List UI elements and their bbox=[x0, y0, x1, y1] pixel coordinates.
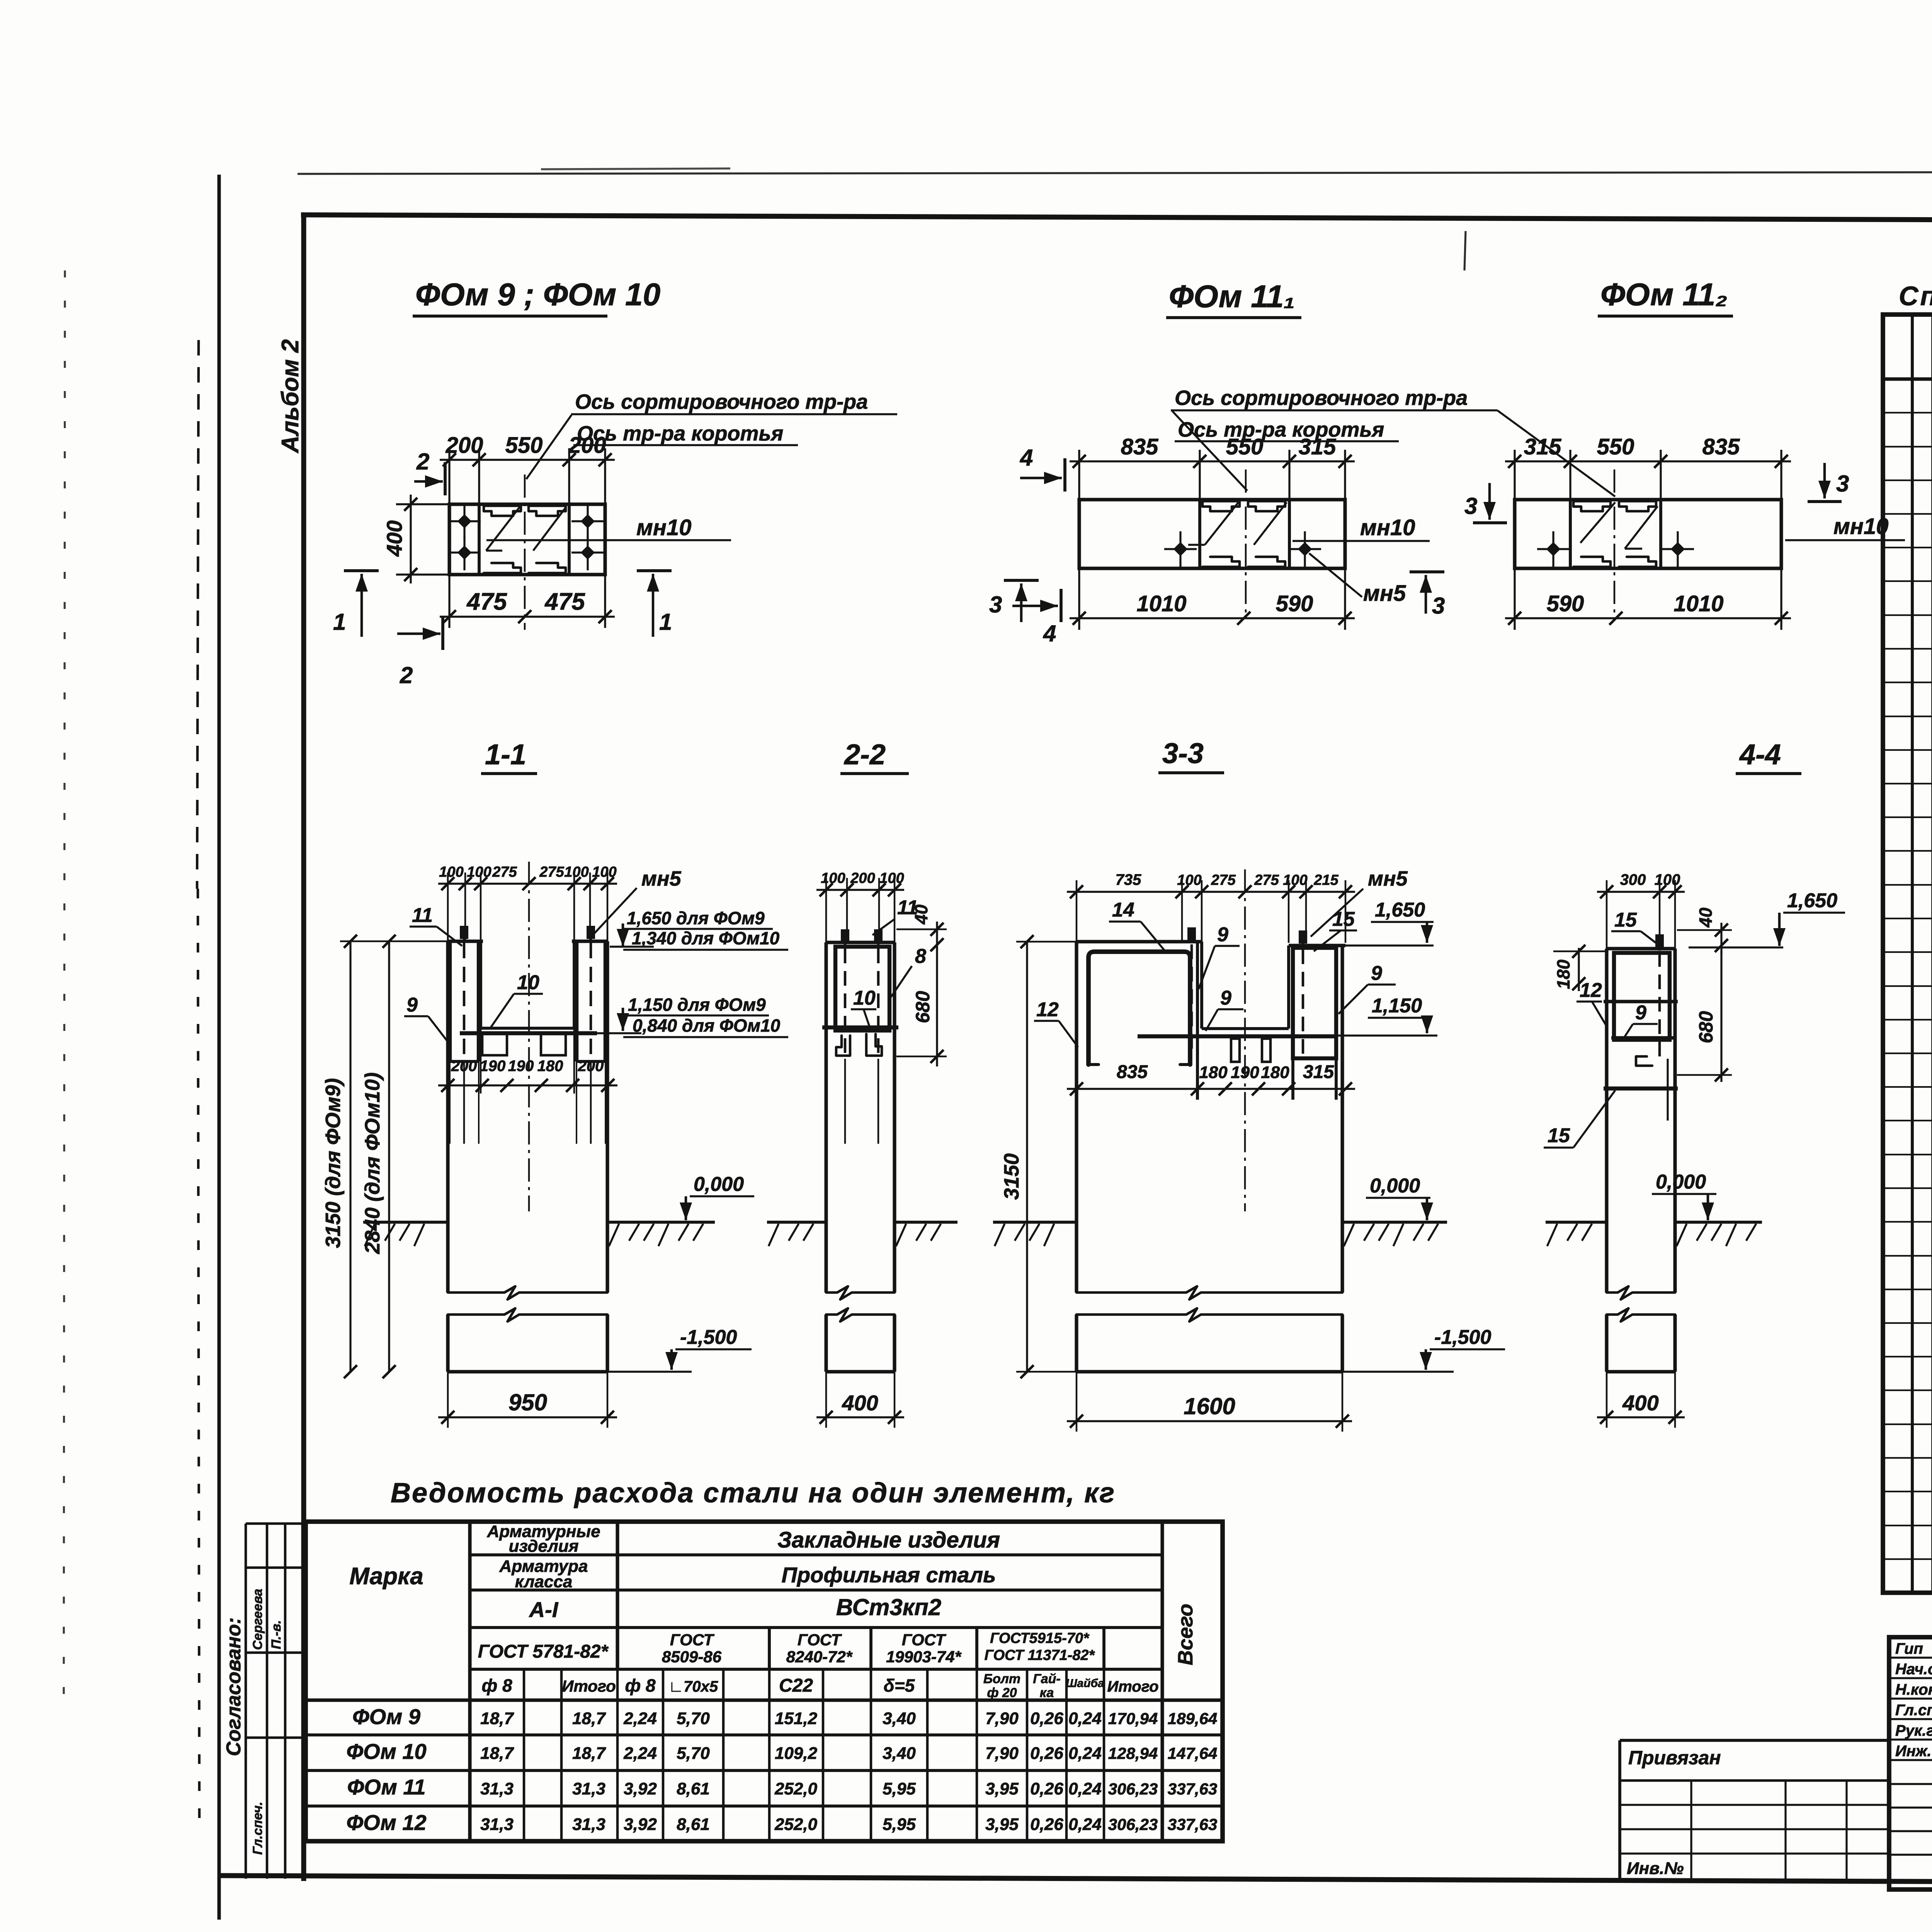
svg-text:Нач.отд.: Нач.отд. bbox=[1895, 1661, 1932, 1678]
svg-text:18,7: 18,7 bbox=[480, 1709, 514, 1728]
svg-text:100: 100 bbox=[879, 870, 904, 886]
svg-text:200: 200 bbox=[850, 870, 875, 886]
steel table outer bbox=[306, 1522, 1223, 1841]
svg-text:мн5: мн5 bbox=[1363, 581, 1406, 606]
s11 left channel MH1 bbox=[448, 941, 452, 1061]
s44 bottom dimension 400 bbox=[1597, 1416, 1685, 1418]
s22 break lines bbox=[826, 1286, 895, 1299]
s44 mesh line pos12 bbox=[1604, 1000, 1678, 1003]
svg-text:180: 180 bbox=[537, 1058, 563, 1075]
svg-text:100: 100 bbox=[592, 864, 616, 880]
s44 ground lines bbox=[1546, 1221, 1607, 1224]
svg-text:835: 835 bbox=[1121, 434, 1159, 459]
signature table rows bbox=[1889, 1656, 1932, 1658]
svg-text:275: 275 bbox=[539, 864, 564, 880]
plan3 anchor crosses bbox=[1537, 548, 1570, 550]
plan1 body rectangle bbox=[449, 504, 605, 575]
svg-text:10: 10 bbox=[517, 971, 539, 994]
svg-text:109,2: 109,2 bbox=[775, 1744, 818, 1763]
svg-text:1600: 1600 bbox=[1184, 1393, 1235, 1419]
svg-text:5,95: 5,95 bbox=[883, 1815, 916, 1834]
svg-text:306,23: 306,23 bbox=[1108, 1815, 1158, 1833]
s11 column outline bbox=[446, 941, 449, 1222]
svg-text:мн10: мн10 bbox=[636, 515, 691, 540]
svg-text:15: 15 bbox=[1614, 909, 1637, 931]
s22 floor mesh line bbox=[822, 1026, 898, 1029]
svg-text:4: 4 bbox=[1043, 621, 1056, 646]
spec table row lines bbox=[1883, 412, 1932, 413]
svg-text:252,0: 252,0 bbox=[774, 1779, 818, 1798]
svg-text:Шайба: Шайба bbox=[1066, 1677, 1104, 1690]
s33 extension lines bbox=[1076, 880, 1078, 943]
svg-text:475: 475 bbox=[466, 588, 507, 615]
s44 break lines bbox=[1607, 1286, 1675, 1299]
outer left rule bbox=[217, 175, 221, 1920]
svg-text:31,3: 31,3 bbox=[480, 1779, 514, 1798]
svg-text:2: 2 bbox=[416, 449, 429, 474]
svg-text:Марка: Марка bbox=[349, 1563, 423, 1590]
plan1 centre axis dash-dot bbox=[524, 474, 526, 630]
svg-text:252,0: 252,0 bbox=[774, 1815, 818, 1834]
svg-text:1010: 1010 bbox=[1136, 591, 1186, 616]
leader line to centre axis bbox=[526, 415, 571, 479]
svg-text:315: 315 bbox=[1524, 434, 1562, 459]
s11 break lines bbox=[448, 1286, 607, 1299]
svg-text:0,26: 0,26 bbox=[1030, 1709, 1063, 1728]
privyazan columns bbox=[1690, 1781, 1692, 1879]
plan2 inner walls bbox=[1198, 500, 1201, 568]
svg-text:Итого: Итого bbox=[1107, 1678, 1158, 1695]
svg-text:3150: 3150 bbox=[1000, 1153, 1023, 1200]
svg-text:100: 100 bbox=[1283, 872, 1307, 888]
svg-text:147,64: 147,64 bbox=[1168, 1744, 1217, 1762]
svg-text:ГОСТ: ГОСТ bbox=[798, 1631, 842, 1649]
signature table lower empty rows bbox=[1889, 1783, 1932, 1785]
s11 bottom dimension 950 bbox=[438, 1416, 617, 1418]
svg-text:0,24: 0,24 bbox=[1068, 1709, 1102, 1728]
s11 centre axis bbox=[528, 862, 530, 1211]
s11 ground line right bbox=[607, 1221, 715, 1224]
s11 recess walls bbox=[479, 941, 482, 1028]
svg-text:337,63: 337,63 bbox=[1168, 1780, 1217, 1798]
svg-text:550: 550 bbox=[505, 433, 543, 458]
svg-text:190: 190 bbox=[480, 1058, 506, 1075]
svg-text:А-Ι: А-Ι bbox=[529, 1597, 559, 1622]
svg-text:2-2: 2-2 bbox=[844, 738, 886, 770]
plan2 body rectangle bbox=[1079, 500, 1345, 568]
svg-text:200: 200 bbox=[446, 433, 483, 458]
s11 top surface bbox=[448, 939, 483, 943]
svg-text:18,7: 18,7 bbox=[572, 1744, 606, 1763]
svg-text:ФОм 11₂: ФОм 11₂ bbox=[1600, 277, 1728, 312]
plan2 channels bbox=[1202, 501, 1240, 511]
plan2 section marker 3 left bbox=[1004, 579, 1039, 582]
plan3 weld diagonals bbox=[1580, 502, 1615, 543]
paper crease mark top centre bbox=[1464, 231, 1466, 270]
svg-text:δ=5: δ=5 bbox=[884, 1675, 915, 1696]
svg-text:изделия: изделия bbox=[509, 1537, 578, 1556]
svg-text:ф 8: ф 8 bbox=[481, 1675, 512, 1696]
s33 break lines bbox=[1077, 1286, 1342, 1299]
s22 dim 40 bbox=[936, 922, 938, 951]
svg-text:275: 275 bbox=[1211, 872, 1236, 888]
plan3 centre axis bbox=[1614, 469, 1616, 618]
svg-text:8: 8 bbox=[915, 945, 926, 968]
svg-text:19903-74*: 19903-74* bbox=[886, 1648, 961, 1666]
s33 support legs bbox=[1231, 1039, 1240, 1062]
s11 vertical dim 3150 bbox=[349, 941, 351, 1372]
frame left bbox=[301, 214, 306, 1881]
svg-text:1,340 для ФОм10: 1,340 для ФОм10 bbox=[632, 928, 780, 948]
spec table column lines bbox=[1911, 315, 1914, 1593]
svg-text:9: 9 bbox=[1217, 923, 1228, 946]
s22 ground lines bbox=[767, 1221, 826, 1224]
svg-text:7,90: 7,90 bbox=[985, 1709, 1019, 1728]
plan2 centre axis bbox=[1245, 469, 1247, 618]
svg-text:31,3: 31,3 bbox=[480, 1815, 514, 1834]
svg-text:ф 8: ф 8 bbox=[625, 1675, 655, 1696]
svg-text:Итого: Итого bbox=[562, 1677, 616, 1695]
svg-text:835: 835 bbox=[1117, 1062, 1148, 1082]
svg-text:мн5: мн5 bbox=[1368, 867, 1408, 890]
s44 foundation bottom bbox=[1607, 1370, 1675, 1373]
s44 dim 40 bbox=[1720, 923, 1722, 954]
s33 centre axis bbox=[1244, 869, 1246, 1211]
svg-text:0,26: 0,26 bbox=[1030, 1815, 1063, 1834]
plan3 section marker 3 right (down) bbox=[1823, 463, 1826, 498]
svg-text:3-3: 3-3 bbox=[1162, 737, 1204, 769]
svg-text:Инж.: Инж. bbox=[1895, 1743, 1932, 1760]
svg-text:ФОм 9: ФОм 9 bbox=[352, 1704, 420, 1729]
plan1 section marker 1 left bbox=[344, 569, 379, 572]
svg-text:40: 40 bbox=[1696, 907, 1716, 928]
s33 recess bbox=[1200, 942, 1203, 1029]
svg-text:Ось сортировочного тр-ра: Ось сортировочного тр-ра bbox=[1175, 386, 1468, 410]
svg-text:ФОм 11₁: ФОм 11₁ bbox=[1169, 279, 1295, 314]
svg-text:950: 950 bbox=[509, 1389, 547, 1415]
svg-text:5,70: 5,70 bbox=[677, 1744, 710, 1763]
title block outer bbox=[1889, 1637, 1932, 1889]
svg-text:8,61: 8,61 bbox=[677, 1779, 710, 1798]
svg-text:3: 3 bbox=[1432, 593, 1445, 619]
svg-text:Ось тр-ра коротья: Ось тр-ра коротья bbox=[577, 422, 783, 445]
svg-text:ГОСТ: ГОСТ bbox=[902, 1631, 947, 1649]
spec table header row line bbox=[1883, 377, 1932, 381]
svg-text:1,150 для ФОм9: 1,150 для ФОм9 bbox=[628, 995, 766, 1015]
svg-text:8509-86: 8509-86 bbox=[662, 1648, 722, 1666]
svg-text:ка: ка bbox=[1040, 1685, 1054, 1700]
svg-text:215: 215 bbox=[1313, 872, 1338, 888]
svg-text:ФОм 11: ФОм 11 bbox=[347, 1775, 425, 1799]
plan1 embedded channels top bbox=[484, 506, 521, 516]
svg-text:14: 14 bbox=[1112, 899, 1134, 921]
svg-text:680: 680 bbox=[1695, 1011, 1717, 1043]
svg-text:200: 200 bbox=[451, 1058, 477, 1075]
svg-text:3,95: 3,95 bbox=[985, 1815, 1019, 1834]
s44 anchor bolt bbox=[1655, 934, 1664, 947]
svg-text:100: 100 bbox=[467, 864, 491, 880]
svg-text:11: 11 bbox=[412, 904, 433, 927]
svg-text:337,63: 337,63 bbox=[1168, 1815, 1217, 1833]
s11 anchor bolt left bbox=[460, 926, 468, 939]
svg-text:Ось сортировочного тр-ра: Ось сортировочного тр-ра bbox=[575, 390, 868, 413]
s33 anchor bolt right bbox=[1299, 930, 1307, 944]
svg-text:Альбом 2: Альбом 2 bbox=[277, 339, 304, 454]
svg-text:100: 100 bbox=[1177, 872, 1201, 888]
s33 mesh line pos9 bbox=[1138, 1034, 1338, 1038]
plan3 inner walls bbox=[1569, 500, 1572, 568]
svg-text:Гл.спеч.: Гл.спеч. bbox=[1895, 1702, 1932, 1719]
svg-text:Согласовано:: Согласовано: bbox=[223, 1617, 245, 1756]
svg-text:128,94: 128,94 bbox=[1108, 1744, 1158, 1762]
svg-text:1010: 1010 bbox=[1673, 591, 1723, 616]
svg-text:ГОСТ 11371-82*: ГОСТ 11371-82* bbox=[985, 1647, 1095, 1663]
svg-text:3: 3 bbox=[1464, 493, 1477, 519]
svg-text:класса: класса bbox=[515, 1572, 573, 1591]
svg-text:0,24: 0,24 bbox=[1068, 1815, 1102, 1834]
svg-text:ф 20: ф 20 bbox=[987, 1685, 1017, 1700]
svg-text:5,95: 5,95 bbox=[883, 1779, 916, 1798]
s33 bottom dimension 1600 bbox=[1067, 1420, 1352, 1422]
svg-text:100: 100 bbox=[821, 870, 845, 886]
s11 top dimension row bbox=[438, 883, 617, 884]
s22 channel box MH2 bbox=[835, 947, 889, 1031]
svg-text:мн10: мн10 bbox=[1833, 514, 1888, 539]
svg-text:15: 15 bbox=[1548, 1124, 1570, 1147]
svg-text:590: 590 bbox=[1547, 591, 1584, 616]
plan1 top dimension 200 550 200 bbox=[440, 459, 615, 461]
plan1 extension lines bbox=[448, 448, 450, 504]
svg-text:Инв.№: Инв.№ bbox=[1627, 1859, 1684, 1878]
svg-text:475: 475 bbox=[544, 588, 585, 615]
svg-text:Гай-: Гай- bbox=[1033, 1672, 1060, 1686]
plan3 top dimension 315 550 835 bbox=[1505, 460, 1791, 462]
svg-text:275: 275 bbox=[492, 864, 517, 880]
plan1 left dimension 400 bbox=[410, 495, 412, 583]
svg-text:1: 1 bbox=[333, 609, 346, 635]
svg-text:1,650: 1,650 bbox=[1375, 899, 1425, 921]
s44 top dimension 300 100 bbox=[1597, 891, 1685, 893]
svg-text:0,26: 0,26 bbox=[1030, 1744, 1063, 1763]
svg-text:Сергеева: Сергеева bbox=[250, 1589, 265, 1650]
svg-text:9: 9 bbox=[1220, 987, 1231, 1009]
svg-text:9: 9 bbox=[1635, 1002, 1646, 1024]
svg-text:0,26: 0,26 bbox=[1030, 1779, 1063, 1798]
svg-text:200: 200 bbox=[578, 1058, 604, 1075]
svg-text:Ведомость расхода стали на: Ведомость расхода стали на один элемент,… bbox=[391, 1478, 1116, 1509]
svg-text:Н.контр.: Н.контр. bbox=[1895, 1681, 1932, 1698]
svg-text:мн5: мн5 bbox=[641, 867, 682, 890]
plan1 embedded channels bottom bbox=[484, 563, 521, 573]
svg-text:1,650: 1,650 bbox=[1787, 889, 1837, 912]
svg-text:4: 4 bbox=[1020, 445, 1033, 471]
svg-text:315: 315 bbox=[1299, 434, 1337, 459]
s33 top dimension row bbox=[1067, 891, 1355, 893]
svg-text:Закладные изделия: Закладные изделия bbox=[777, 1527, 1000, 1553]
s44 channel foot bbox=[1636, 1056, 1652, 1066]
svg-text:100: 100 bbox=[1655, 871, 1680, 888]
svg-text:11: 11 bbox=[897, 896, 918, 919]
svg-text:400: 400 bbox=[842, 1391, 878, 1415]
s22 foundation bottom bbox=[826, 1370, 895, 1373]
svg-text:3,92: 3,92 bbox=[624, 1815, 657, 1834]
svg-text:180: 180 bbox=[1553, 959, 1573, 989]
svg-text:550: 550 bbox=[1226, 434, 1264, 459]
plan2 bottom dimension 1010 590 bbox=[1070, 617, 1355, 619]
svg-text:ФОм 10: ФОм 10 bbox=[346, 1739, 426, 1764]
s44 dim 180 bbox=[1578, 948, 1580, 991]
svg-text:151,2: 151,2 bbox=[775, 1709, 818, 1728]
svg-text:18,7: 18,7 bbox=[480, 1744, 514, 1763]
s44 dim 680 bbox=[1720, 946, 1722, 1082]
s11 level mark 1150 bbox=[622, 1008, 624, 1031]
svg-text:7,90: 7,90 bbox=[985, 1744, 1019, 1763]
plan3 bottom dimension 590 1010 bbox=[1505, 617, 1791, 619]
svg-text:315: 315 bbox=[1303, 1062, 1334, 1082]
svg-text:3: 3 bbox=[989, 592, 1002, 617]
plan1 section marker 1 right bbox=[637, 569, 672, 572]
torn paper left edge bbox=[197, 340, 199, 889]
plan1 inner walls bbox=[478, 504, 481, 575]
svg-text:ФОм 9 ; ФОм 10: ФОм 9 ; ФОм 10 bbox=[415, 277, 660, 312]
svg-text:8240-72*: 8240-72* bbox=[786, 1648, 853, 1666]
privyazan block outline bbox=[1618, 1740, 1621, 1879]
s11 vertical dim 2840 bbox=[388, 941, 390, 1372]
s33 anchor bolt left bbox=[1187, 927, 1196, 940]
left approval sidebar bbox=[245, 1524, 247, 1879]
s33 vertical dim 3150 bbox=[1026, 942, 1028, 1372]
svg-text:2,24: 2,24 bbox=[623, 1709, 657, 1728]
svg-text:4-4: 4-4 bbox=[1739, 738, 1781, 770]
svg-text:31,3: 31,3 bbox=[572, 1815, 605, 1834]
svg-text:8,61: 8,61 bbox=[677, 1815, 710, 1834]
steel table sub column verticals bbox=[469, 1669, 471, 1841]
svg-text:3,92: 3,92 bbox=[624, 1779, 657, 1798]
s11 channel wall extensions bbox=[449, 1061, 451, 1144]
svg-text:100: 100 bbox=[564, 864, 588, 880]
svg-text:ГОСТ 5781-82*: ГОСТ 5781-82* bbox=[478, 1641, 609, 1662]
svg-text:189,64: 189,64 bbox=[1168, 1709, 1217, 1728]
s33 outline bbox=[1075, 942, 1078, 1222]
svg-text:680: 680 bbox=[912, 991, 934, 1023]
spec table outer border bbox=[1883, 315, 1932, 1593]
svg-text:-1,500: -1,500 bbox=[1434, 1326, 1492, 1349]
s22 top dimension 100 200 100 bbox=[816, 889, 904, 891]
s22 channel feet bbox=[836, 1036, 850, 1056]
svg-text:18,7: 18,7 bbox=[572, 1709, 606, 1728]
svg-text:ФОм 12: ФОм 12 bbox=[346, 1810, 426, 1835]
sheet top edge bbox=[298, 172, 1932, 174]
svg-text:31,3: 31,3 bbox=[572, 1779, 605, 1798]
svg-text:15: 15 bbox=[1332, 908, 1355, 930]
plan2 leader lines bbox=[1172, 411, 1247, 491]
svg-text:835: 835 bbox=[1702, 434, 1740, 459]
svg-text:0,840 для ФОм10: 0,840 для ФОм10 bbox=[633, 1015, 781, 1036]
s44 bottom thick line pos15 bbox=[1604, 1087, 1678, 1090]
frame top bbox=[301, 215, 1932, 222]
svg-text:1: 1 bbox=[659, 609, 672, 635]
svg-text:0,000: 0,000 bbox=[694, 1173, 744, 1196]
svg-text:12: 12 bbox=[1580, 979, 1602, 1002]
svg-text:Гип: Гип bbox=[1895, 1640, 1923, 1657]
s11 right channel MH1 bbox=[575, 941, 578, 1061]
privyazan rows bbox=[1620, 1779, 1889, 1782]
plan2 weld diagonals bbox=[1205, 502, 1238, 545]
s44 channel box bbox=[1614, 953, 1670, 1040]
svg-text:9: 9 bbox=[406, 994, 418, 1016]
s33 ground lines bbox=[993, 1221, 1077, 1224]
s33 top surfaces bbox=[1077, 940, 1202, 943]
svg-text:550: 550 bbox=[1597, 434, 1634, 459]
svg-text:0,24: 0,24 bbox=[1068, 1779, 1102, 1798]
steel table data row lines bbox=[306, 1733, 1223, 1736]
svg-text:200: 200 bbox=[568, 433, 606, 458]
s44 column outline bbox=[1605, 949, 1608, 1222]
svg-text:2,24: 2,24 bbox=[623, 1744, 657, 1763]
svg-text:180: 180 bbox=[1261, 1063, 1289, 1082]
s22 dim 680 bbox=[936, 945, 938, 1066]
svg-text:3,40: 3,40 bbox=[883, 1709, 916, 1728]
svg-text:2: 2 bbox=[400, 662, 413, 688]
s11 foundation bottom bbox=[448, 1370, 607, 1373]
plan1 bottom dimension 475 475 bbox=[440, 616, 615, 617]
s22 bottom dimension 400 bbox=[816, 1416, 904, 1418]
s11 extension lines bbox=[447, 872, 449, 941]
svg-text:∟70x5: ∟70x5 bbox=[668, 1678, 718, 1695]
svg-text:3: 3 bbox=[1836, 471, 1849, 497]
svg-text:ВСт3кп2: ВСт3кп2 bbox=[836, 1594, 941, 1620]
svg-text:735: 735 bbox=[1116, 871, 1141, 888]
svg-text:190: 190 bbox=[1231, 1063, 1259, 1082]
svg-text:590: 590 bbox=[1276, 591, 1313, 616]
svg-text:С22: С22 bbox=[779, 1675, 813, 1696]
plan3 body rectangle bbox=[1515, 500, 1781, 568]
svg-text:-1,500: -1,500 bbox=[680, 1326, 737, 1349]
svg-text:Гл.спеч.: Гл.спеч. bbox=[250, 1802, 265, 1855]
svg-text:180: 180 bbox=[1199, 1063, 1228, 1082]
steel table header verticals bbox=[468, 1522, 471, 1841]
svg-text:Профильная сталь: Профильная сталь bbox=[782, 1563, 996, 1587]
s22 column outline bbox=[824, 942, 828, 1222]
s11 mesh line pos10 bbox=[460, 1031, 597, 1035]
svg-text:1-1: 1-1 bbox=[485, 738, 526, 770]
svg-text:100: 100 bbox=[439, 864, 463, 880]
svg-text:306,23: 306,23 bbox=[1108, 1780, 1158, 1798]
svg-text:ГОСТ: ГОСТ bbox=[670, 1631, 715, 1649]
svg-text:3150 (для ФОм9): 3150 (для ФОм9) bbox=[321, 1078, 345, 1248]
svg-text:Болт: Болт bbox=[983, 1672, 1020, 1686]
s33 foundation bottom bbox=[1077, 1370, 1342, 1373]
svg-text:400: 400 bbox=[1622, 1391, 1658, 1415]
svg-text:Привязан: Привязан bbox=[1628, 1747, 1721, 1769]
svg-text:275: 275 bbox=[1254, 872, 1279, 888]
svg-text:3,40: 3,40 bbox=[883, 1744, 916, 1763]
s33 right channel box bbox=[1293, 948, 1336, 1058]
svg-text:1,650 для ФОм9: 1,650 для ФОм9 bbox=[627, 908, 765, 928]
svg-text:10: 10 bbox=[853, 987, 876, 1009]
plan1 weld diagonals bbox=[486, 507, 520, 551]
svg-text:1,150: 1,150 bbox=[1372, 995, 1422, 1017]
plan3 channels bbox=[1573, 501, 1611, 511]
frame bottom bbox=[219, 1876, 1932, 1884]
plan2 anchor crosses bbox=[1164, 548, 1197, 550]
svg-text:Спецификация элементов монол: Спецификация элементов монолитной констр… bbox=[1899, 281, 1932, 311]
svg-text:400: 400 bbox=[382, 520, 406, 557]
plan2 top dimension 835 550 315 bbox=[1070, 460, 1355, 462]
svg-text:170,94: 170,94 bbox=[1108, 1709, 1158, 1728]
s11 ground line left bbox=[363, 1221, 448, 1224]
plan2 section marker 3 right bbox=[1410, 570, 1444, 573]
